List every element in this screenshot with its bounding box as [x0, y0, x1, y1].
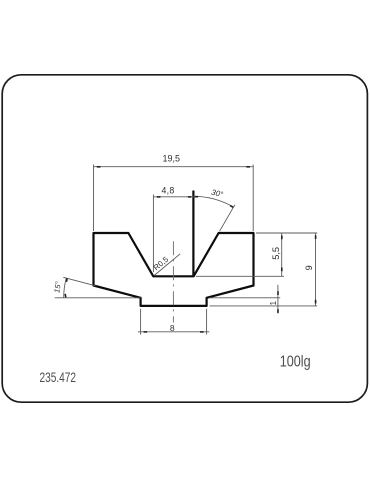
dimension 9 tick bottom — [315, 300, 317, 304]
frame rounded border — [2, 75, 367, 402]
15deg angle: dimension arc — [64, 278, 67, 298]
svg-text:15°: 15° — [52, 281, 62, 293]
svg-text:235.472: 235.472 — [40, 370, 77, 386]
length marking text 100lg — [280, 353, 311, 371]
dimension 9 line — [315, 233, 317, 306]
dimension 19,5 tick right — [246, 166, 250, 168]
dimension 9 bottom extension line — [210, 305, 318, 307]
30deg angle: dimension arc — [193, 196, 233, 207]
die body outline — [94, 233, 254, 306]
dimension 19,5 tick left — [97, 166, 101, 168]
dimension 19,5 line — [94, 166, 254, 168]
30deg angle: tick at arc end — [230, 205, 234, 208]
dimension 5,5 label — [271, 247, 281, 260]
15deg angle: tick top — [66, 278, 68, 282]
dimension 1 label — [269, 301, 278, 305]
centerline (dash-dot) — [172, 241, 174, 322]
svg-text:1: 1 — [269, 301, 278, 305]
dimension 4,8 tick left — [157, 196, 161, 198]
R0,5 label — [152, 254, 171, 272]
svg-text:19,5: 19,5 — [163, 153, 181, 163]
dimension 19,5 extension line left — [93, 165, 95, 232]
svg-text:100lg: 100lg — [280, 353, 311, 371]
30deg angle: extension of right V-wall — [220, 205, 235, 232]
dimension 5,5 / 9 top extension line — [256, 232, 317, 234]
30deg angle: tick at arc start — [195, 196, 199, 198]
dimension 8 tick left — [144, 331, 148, 333]
dimension 19,5 extension line right — [252, 165, 254, 232]
dimension 1 tick below — [277, 309, 279, 313]
dimension 1 top extension line — [210, 297, 281, 299]
dimension 4,8 line — [153, 196, 197, 198]
dimension 1 line — [277, 285, 279, 314]
dimension 5,5 tick top — [281, 236, 283, 240]
dimension 4,8 label — [162, 185, 175, 195]
dimension 1 tick above — [277, 291, 279, 295]
dimension 8 extension line left — [140, 309, 142, 335]
dimension 5,5 bottom extension line — [196, 275, 284, 277]
R0,5 leader line — [154, 254, 180, 276]
svg-text:9: 9 — [304, 265, 314, 270]
15deg angle: tick bottom — [64, 294, 66, 298]
dimension 8 line — [138, 331, 210, 333]
15deg angle: extension of sloped edge — [63, 277, 95, 286]
dimension 4,8 extension line left — [152, 195, 154, 273]
svg-text:4,8: 4,8 — [162, 185, 175, 195]
thick vertical line at V bottom right corner — [192, 191, 194, 277]
30deg angle label — [210, 188, 224, 200]
dimension 8 extension line right — [206, 309, 208, 335]
dimension 8 label — [170, 323, 175, 333]
15deg angle: horizontal reference line — [55, 297, 141, 299]
svg-text:5,5: 5,5 — [271, 247, 281, 260]
dimension 5,5 line — [281, 233, 283, 276]
15deg angle label — [52, 281, 62, 293]
dimension 19,5 label — [163, 153, 181, 163]
svg-text:8: 8 — [170, 323, 175, 333]
dimension 5,5 tick bottom — [281, 268, 283, 272]
dimension 4,8 tick right — [188, 196, 192, 198]
dimension 9 label — [304, 265, 314, 270]
part number text 235.472 — [40, 370, 77, 386]
dimension 9 tick top — [315, 235, 317, 239]
dimension 8 tick right — [200, 331, 204, 333]
